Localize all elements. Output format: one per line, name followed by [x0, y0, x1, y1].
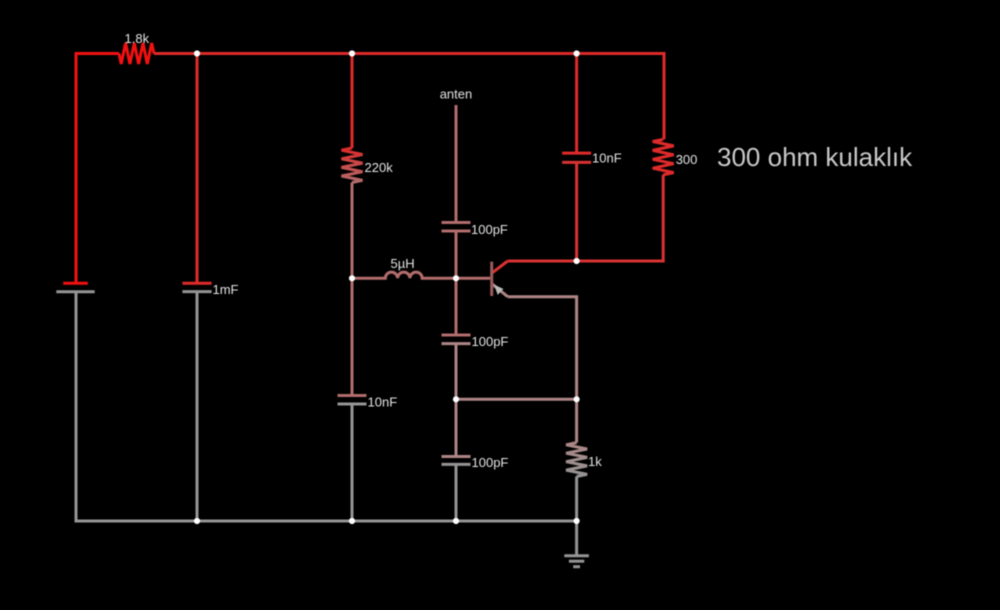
junction node 7	[453, 396, 459, 402]
wire: 220k bottom to base row	[351, 183, 354, 398]
capacitor C 10nF (top) upper plate	[562, 152, 591, 155]
wire: R300 bottom to collector rail	[508, 175, 664, 261]
capacitor C 100pF (2) upper plate	[442, 334, 471, 337]
ground G1 bar 1	[564, 554, 589, 557]
wire: V+ source node, top-left corner run	[76, 54, 119, 284]
transistor Q1 collector diagonal	[492, 261, 508, 273]
svg-text:1.8k: 1.8k	[125, 31, 150, 46]
junction node 10	[349, 518, 355, 524]
junction node 6	[574, 258, 580, 264]
capacitor C 100pF (2) lower plate	[442, 342, 471, 345]
capacitor C 10nF (left) lower plate	[338, 403, 367, 406]
wire: 10nF down to collector node	[575, 162, 578, 261]
resistor R3 300	[653, 139, 674, 175]
capacitor C 100pF (3) upper plate	[442, 455, 471, 458]
svg-text:100pF: 100pF	[472, 455, 509, 470]
inductor L1 5uH	[352, 272, 456, 278]
svg-text:anten: anten	[440, 87, 473, 102]
antenna A1 wire down to 100pF	[455, 105, 458, 223]
svg-text:10nF: 10nF	[592, 151, 622, 166]
wire: left drop below source to bottom rail and bottom rail run	[76, 292, 577, 521]
ground G1 bar 2	[569, 560, 584, 563]
transistor Q1 emitter diagonal	[492, 284, 508, 297]
junction node 9	[194, 518, 200, 524]
capacitor C 100pF (1) lower plate	[442, 230, 471, 233]
junction node 5	[453, 275, 459, 281]
capacitor C 1mF bottom plate	[182, 290, 211, 293]
svg-text:100pF: 100pF	[471, 222, 508, 237]
voltage source V1 bottom plate (long)	[56, 290, 94, 293]
junction node 3	[574, 50, 580, 56]
wire: rail drop to 1mF at x=197	[196, 52, 199, 283]
wire: 100pF(3) down to bottom rail	[455, 464, 458, 521]
wire: 1mF bottom to bottom rail	[196, 292, 199, 521]
junction node 2	[349, 50, 355, 56]
wire: 1k down to bottom rail	[575, 477, 578, 522]
junction node 11	[453, 518, 459, 524]
capacitor C 100pF (3) lower plate	[442, 463, 471, 466]
wire: horizontal emitter-node link y=399.3	[456, 398, 577, 401]
capacitor C 10nF (left) upper plate	[338, 394, 367, 397]
capacitor C 100pF (1) upper plate	[442, 221, 471, 224]
wire: 100pF(2) down through junction to 100pF(3)	[455, 344, 458, 457]
wire: 10nF left down to bottom rail	[351, 404, 354, 521]
wire: base lead to transistor bar	[456, 277, 490, 280]
wire: emitter run right and down to junction	[508, 297, 577, 400]
junction node 4	[349, 275, 355, 281]
svg-text:10nF: 10nF	[368, 395, 398, 410]
transistor Q1 emitter arrow	[494, 285, 503, 295]
svg-text:5µH: 5µH	[391, 256, 415, 271]
wire: emitter node down to 1k	[575, 398, 578, 443]
ground G1 lead	[575, 521, 578, 556]
resistor R4 1k	[566, 443, 587, 477]
wire: 100pF(1) to 100pF(2), through base junction	[455, 231, 458, 335]
transistor Q1 base bar	[490, 262, 493, 296]
ground G1 bar 3	[573, 565, 580, 568]
capacitor C 10nF (top) lower plate	[562, 161, 591, 164]
svg-text:1mF: 1mF	[213, 282, 239, 297]
wire: rail drop to 10nF at x=576.6	[575, 52, 578, 153]
junction node 1	[194, 50, 200, 56]
svg-text:300: 300	[676, 152, 698, 167]
junction node 8	[574, 396, 580, 402]
voltage source V1 top plate (short)	[63, 282, 88, 285]
svg-text:1k: 1k	[588, 454, 602, 469]
svg-text:300 ohm kulaklık: 300 ohm kulaklık	[717, 142, 913, 172]
svg-text:100pF: 100pF	[472, 334, 509, 349]
resistor R1 1.8k (top rail)	[119, 43, 154, 64]
wire: top rail from R1 to right corner, down to R300	[154, 54, 664, 140]
wire: rail drop to 220k at x=352	[351, 52, 354, 148]
svg-text:220k: 220k	[365, 160, 394, 175]
junction node 12	[574, 518, 580, 524]
resistor R2 220k	[342, 148, 363, 183]
capacitor C 1mF top plate	[182, 282, 211, 285]
